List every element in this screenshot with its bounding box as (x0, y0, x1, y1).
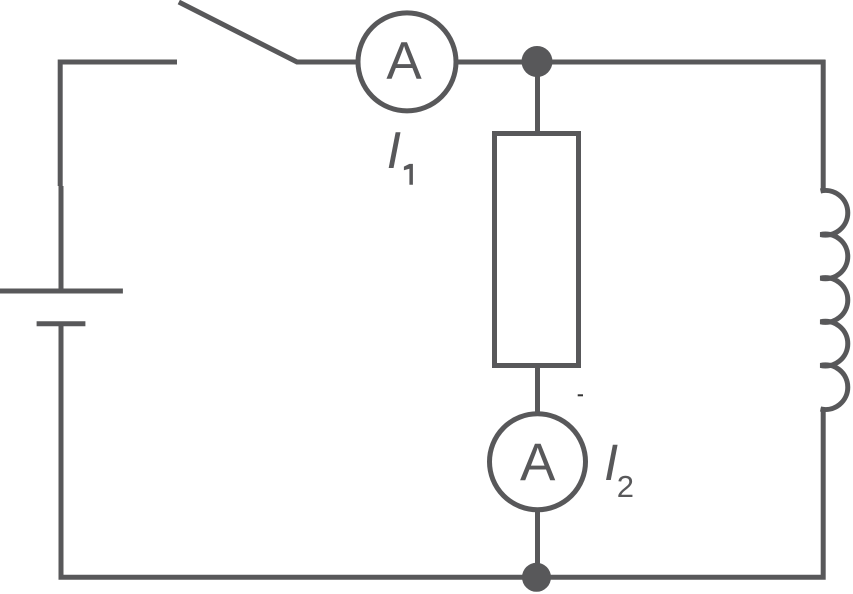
svg-text:I: I (387, 122, 401, 180)
battery short plate (37, 321, 86, 326)
ammeter A1 circle (358, 13, 456, 111)
label I1: subscript 1 (404, 164, 413, 185)
ammeter A2 circle (490, 414, 586, 510)
node B (junction dot) (522, 563, 551, 592)
svg-text:A: A (520, 433, 556, 492)
wire: top-left corner and left vertical upper segment (60, 62, 177, 186)
node A (junction dot) (522, 46, 553, 77)
battery long plate (0, 289, 123, 294)
svg-text:2: 2 (617, 469, 634, 504)
wire: ammeter A1 to node A (458, 60, 537, 65)
wire: ammeter A2 to node B (535, 510, 540, 578)
wire: node A to top-right corner (537, 60, 825, 65)
wire: resistor R to ammeter A2 (535, 366, 540, 415)
wire: right vertical upper (821, 60, 826, 191)
switch blade (179, 2, 356, 62)
wire: left vertical to battery top plate (59, 186, 64, 289)
wire: battery to bottom wire, bottom wire, right vertical lower (61, 324, 823, 578)
stray dash mark (578, 394, 583, 396)
wire: node A to resistor R (535, 70, 540, 134)
resistor R (495, 134, 579, 366)
svg-text:A: A (386, 32, 422, 91)
inductor L coil (821, 190, 848, 409)
